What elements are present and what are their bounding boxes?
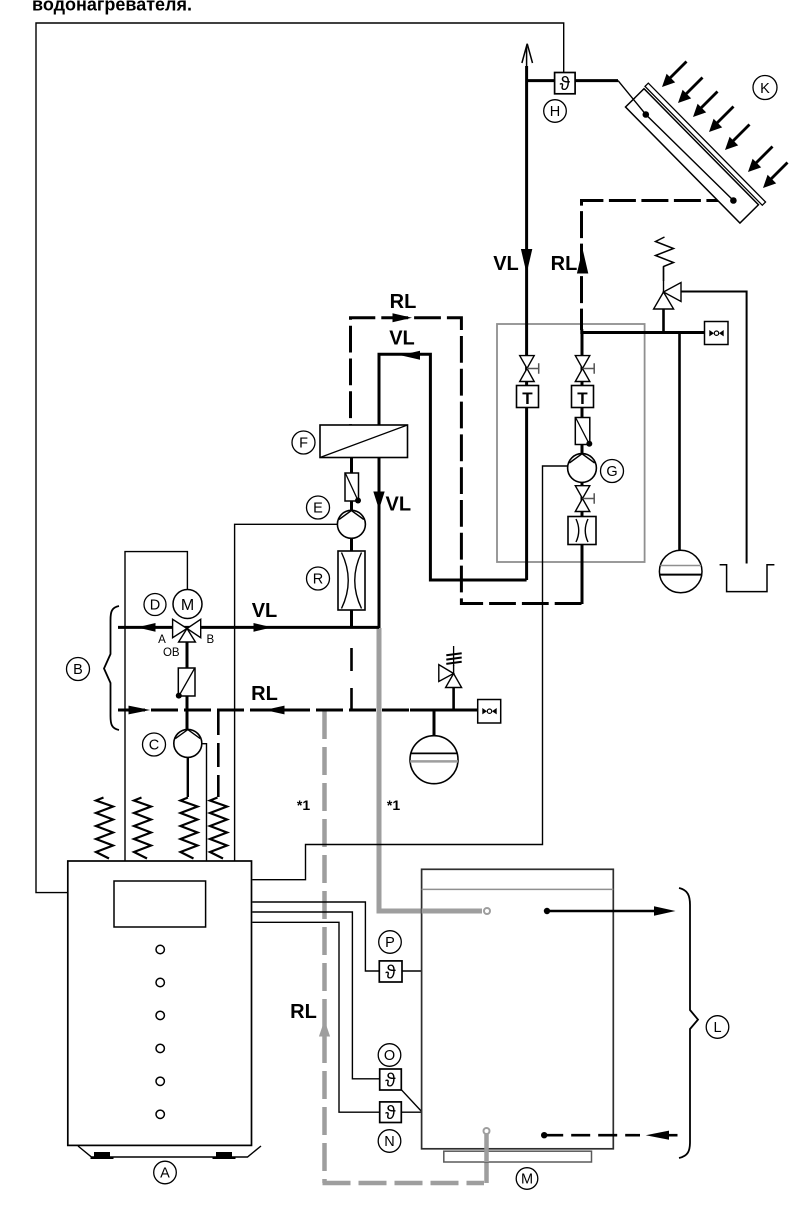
svg-text:A: A: [158, 634, 166, 646]
boiler display: [114, 881, 206, 927]
safety valve upper: [663, 267, 665, 292]
pump E: [337, 510, 365, 538]
flex connection spring 3: [181, 798, 198, 859]
flex connection spring 1: [96, 798, 113, 859]
svg-text:ϑ: ϑ: [385, 1103, 396, 1124]
VL arrow down (to header): [373, 492, 384, 510]
svg-text:B: B: [73, 662, 83, 678]
spring symbol lower safety valve: [453, 646, 455, 666]
VL arrow left (from station): [401, 351, 421, 360]
pump C wire: [202, 744, 207, 861]
RL pipe in station: [580, 329, 583, 604]
svg-text:F: F: [299, 436, 308, 452]
solar safety group header: [582, 331, 705, 334]
expansion vessel upper: [659, 550, 702, 593]
label F: [292, 431, 315, 454]
check valve below mixer: [176, 668, 195, 699]
svg-text:VL: VL: [389, 328, 415, 350]
svg-text:VL: VL: [252, 600, 278, 622]
svg-text:P: P: [385, 935, 395, 951]
thermometer T RL: [572, 386, 594, 409]
collector sensor box (theta): [555, 73, 576, 96]
pump E wire: [235, 524, 338, 861]
svg-text:M: M: [181, 597, 194, 614]
label P: [379, 931, 402, 954]
svg-text:A: A: [160, 1166, 170, 1182]
gray pipe stub into tank (redraw over tank): [422, 909, 482, 914]
flex connection spring 4: [210, 798, 227, 859]
svg-text:T: T: [577, 389, 588, 408]
thermometer T VL: [517, 386, 539, 409]
label K: [753, 76, 777, 100]
svg-text:OB: OB: [163, 647, 180, 659]
spring symbol upper safety valve: [656, 237, 674, 281]
gray dashed RL pipe to tank bottom: [322, 711, 327, 1183]
collector internal pipe and sensor: [618, 81, 733, 201]
svg-text:водонагревателя.: водонагревателя.: [32, 0, 192, 15]
collector K panel: [625, 83, 766, 225]
svg-text:E: E: [313, 501, 323, 517]
safety valve riser upper: [662, 309, 665, 333]
RL header solid part at safety group: [410, 709, 478, 712]
cold water dashed pipe: [544, 1134, 640, 1137]
svg-text:RL: RL: [290, 1001, 317, 1023]
VL arrow down solar: [521, 249, 532, 274]
gravity brake R: [338, 551, 365, 610]
sensor box N (theta): [380, 1102, 402, 1124]
pump G: [568, 454, 597, 483]
svg-text:M: M: [521, 1172, 533, 1188]
sensor P wire: [252, 902, 379, 971]
svg-text:RL: RL: [251, 683, 278, 705]
svg-text:VL: VL: [493, 253, 519, 275]
bracket L tank circuit: [679, 888, 698, 1158]
label R: [307, 567, 330, 590]
svg-text:ϑ: ϑ: [385, 1071, 396, 1092]
RL dashed pipe from collector: [582, 201, 734, 331]
VL pipe below heat exchanger: [378, 458, 381, 629]
RL pipe below heat exchanger: [350, 458, 353, 629]
VL main header: [118, 626, 379, 629]
gray pipe riser into tank bottom: [484, 1133, 489, 1183]
pump G wire: [252, 466, 568, 880]
label O: [378, 1044, 401, 1067]
tank top inner line: [422, 888, 614, 890]
storage tank M body: [422, 869, 614, 1149]
RL arrow left header: [265, 706, 285, 715]
cold water arrow: [646, 1131, 669, 1140]
svg-text:*1: *1: [297, 797, 310, 813]
fill-check valve box lower: [478, 700, 501, 724]
RL arrow right (to exchanger): [393, 313, 413, 322]
sensor N wire: [252, 922, 379, 1112]
label G: [601, 460, 624, 483]
label A: [154, 1161, 177, 1184]
flex connection spring 2: [134, 798, 151, 859]
sensor box O (theta): [380, 1069, 402, 1092]
label D: [144, 594, 166, 616]
solar station enclosure (gray box): [497, 324, 645, 562]
fill-check valve box upper: [705, 322, 729, 345]
label L: [706, 1016, 729, 1039]
RL arrow right header: [129, 706, 151, 715]
boiler button 6: [156, 1110, 164, 1118]
air vent arrow: [522, 44, 533, 66]
mixing valve D (3-way): [173, 619, 201, 642]
svg-text:N: N: [384, 1134, 394, 1150]
boiler base: [78, 1146, 261, 1157]
svg-text:H: H: [550, 104, 560, 120]
RL main header dashed: [118, 709, 414, 712]
boiler button 1: [156, 945, 164, 953]
boiler button 2: [156, 978, 164, 986]
svg-text:RL: RL: [390, 291, 417, 313]
DHW outlet pipe: [547, 910, 656, 913]
svg-text:O: O: [384, 1048, 395, 1064]
svg-text:RL: RL: [551, 253, 578, 275]
boiler button 4: [156, 1044, 164, 1052]
DHW outlet arrow: [654, 906, 676, 916]
VL arrow right header: [254, 623, 273, 632]
svg-text:*1: *1: [387, 797, 400, 813]
svg-text:C: C: [149, 738, 159, 754]
svg-text:ϑ: ϑ: [560, 74, 571, 95]
RL arrow up solar: [577, 249, 588, 274]
pump C to boiler pipe: [187, 758, 189, 798]
pump C: [174, 729, 202, 757]
svg-text:T: T: [522, 389, 533, 408]
expansion vessel pipe lower: [433, 710, 436, 737]
gray pipe nozzle at tank top: [484, 908, 490, 914]
svg-text:ϑ: ϑ: [385, 963, 396, 984]
mixer motor M: [173, 590, 202, 619]
controller loop wire (boiler to collector sensor): [36, 23, 564, 893]
label N: [378, 1130, 401, 1153]
label M tank: [516, 1168, 538, 1190]
svg-text:VL: VL: [386, 494, 412, 516]
expansion vessel lower: [410, 736, 458, 784]
svg-text:L: L: [713, 1020, 721, 1036]
gray RL arrow up: [319, 1020, 330, 1037]
shut-off valve VL station: [520, 356, 539, 382]
label E: [307, 496, 330, 519]
mixer motor wire: [125, 552, 187, 861]
boiler button 5: [156, 1077, 164, 1085]
svg-text:G: G: [606, 464, 617, 480]
sensor box P (theta): [379, 961, 402, 984]
svg-text:R: R: [313, 572, 323, 588]
label C: [143, 733, 166, 756]
mixer branch down pipe: [186, 628, 189, 730]
svg-text:K: K: [760, 81, 770, 97]
label B: [67, 658, 90, 681]
dashed link VL to RL header: [350, 648, 353, 710]
sensor O wire: [252, 912, 379, 1079]
gray riser into tank bottom (redraw over base): [484, 1133, 489, 1162]
DHW outlet dot: [544, 908, 550, 914]
svg-text:B: B: [206, 634, 214, 646]
VL pipe from station to heat exchanger: [379, 354, 527, 580]
blow-off line to funnel: [681, 292, 747, 564]
label H: [544, 100, 567, 123]
safety valve lower: [453, 665, 455, 674]
boiler foot right: [216, 1152, 232, 1157]
svg-text:D: D: [150, 598, 160, 614]
boiler foot left: [94, 1152, 110, 1157]
regulating valve station: [575, 486, 594, 512]
bracket B heating circuit: [104, 606, 119, 730]
drain funnel upper: [720, 565, 775, 592]
cold water dot: [541, 1132, 547, 1138]
pipe to collector sensor header: [527, 79, 618, 82]
tank base: [444, 1151, 592, 1162]
boiler safety group riser: [452, 688, 455, 711]
shut-off valve RL station: [575, 356, 594, 382]
heat exchanger F: [320, 425, 408, 458]
check valve station: [575, 418, 592, 447]
dashed boiler connection pipe: [217, 711, 220, 797]
VL pipe solar riser: [525, 66, 528, 580]
gray pipe *1 supply: vertical to tank: [379, 628, 482, 911]
RL dashed pipe station to heat exchanger: [351, 318, 582, 604]
flow meter station: [568, 517, 596, 545]
VL arrow left header: [137, 623, 156, 632]
boiler button 3: [156, 1011, 164, 1019]
boiler A body: [68, 861, 252, 1145]
check valve above pump E: [345, 473, 361, 504]
sun arrows: [662, 62, 788, 189]
expansion vessel pipe upper: [678, 333, 681, 552]
